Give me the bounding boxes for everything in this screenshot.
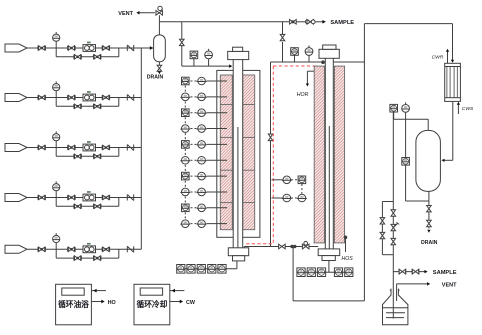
- svg-text:DRAIN: DRAIN: [147, 74, 164, 80]
- svg-text:CWS: CWS: [462, 106, 474, 112]
- svg-text:CWR: CWR: [432, 55, 444, 61]
- svg-text:HOS: HOS: [342, 256, 354, 262]
- svg-text:CW: CW: [186, 300, 196, 306]
- svg-text:VENT: VENT: [442, 282, 457, 288]
- svg-text:SAMPLE: SAMPLE: [330, 20, 354, 26]
- svg-text:HOR: HOR: [297, 92, 309, 98]
- svg-text:SAMPLE: SAMPLE: [433, 270, 457, 276]
- svg-text:DRAIN: DRAIN: [421, 240, 438, 246]
- svg-text:循环冷却: 循环冷却: [137, 299, 168, 309]
- svg-text:循环油浴: 循环油浴: [58, 299, 89, 309]
- svg-text:VENT: VENT: [118, 11, 133, 17]
- svg-text:HO: HO: [108, 300, 116, 306]
